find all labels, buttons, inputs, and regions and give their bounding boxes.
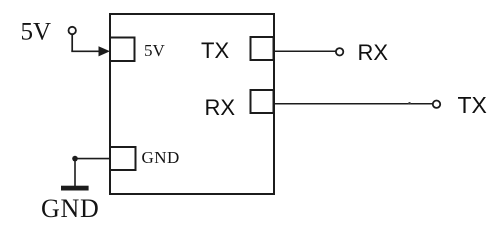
- svg-text:5V: 5V: [21, 19, 52, 46]
- node 5V terminal: [69, 27, 76, 34]
- pin GND (left bottom pin box): [110, 147, 136, 170]
- wire GND horizontal: [74, 158, 110, 160]
- node TX terminal: [433, 101, 440, 108]
- wire TX to RX terminal: [274, 50, 337, 52]
- node RX terminal: [336, 48, 343, 55]
- arrowhead into 5V pin: [99, 46, 111, 56]
- wire 5V vertical: [71, 35, 73, 52]
- svg-text:GND: GND: [41, 194, 99, 223]
- pin RX (right bottom pin box): [251, 90, 274, 113]
- wire GND vertical: [74, 159, 76, 186]
- pin 5V (left top pin box): [110, 38, 135, 62]
- junction GND: [72, 156, 78, 162]
- IC module body: [110, 14, 274, 194]
- svg-text:RX: RX: [358, 40, 389, 65]
- svg-text:GND: GND: [142, 148, 180, 167]
- svg-text:TX: TX: [458, 92, 487, 118]
- pin TX (right top pin box): [251, 37, 274, 60]
- svg-text:5V: 5V: [144, 41, 166, 60]
- svg-text:RX: RX: [205, 95, 236, 120]
- junction speck on wire: [408, 102, 411, 105]
- svg-text:TX: TX: [201, 38, 229, 63]
- wire 5V horizontal: [71, 50, 101, 52]
- ground symbol: [61, 186, 89, 191]
- wire RX to TX terminal: [274, 103, 434, 105]
